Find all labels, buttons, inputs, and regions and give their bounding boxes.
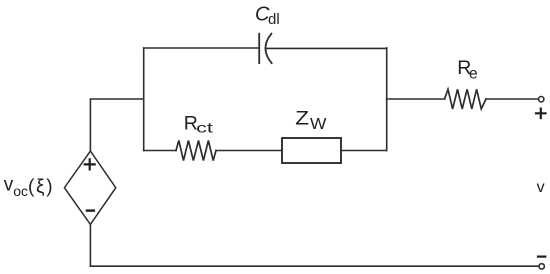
svg-text:Z: Z bbox=[295, 108, 309, 129]
svg-text:e: e bbox=[469, 66, 478, 83]
svg-text:v: v bbox=[537, 179, 545, 196]
svg-text:oc: oc bbox=[13, 183, 28, 199]
svg-text:W: W bbox=[310, 116, 327, 133]
svg-text:dl: dl bbox=[268, 11, 280, 28]
svg-text:(ξ): (ξ) bbox=[28, 177, 53, 198]
svg-text:ct: ct bbox=[196, 119, 213, 135]
